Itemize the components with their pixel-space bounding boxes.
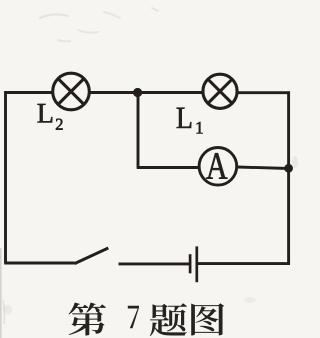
caption 第7题图 [68, 302, 224, 336]
caption char 7 [128, 306, 139, 328]
wire bottom-left (corner to switch) [4, 262, 75, 265]
node (right junction) [284, 164, 293, 173]
wire top-left horizontal [4, 91, 52, 94]
wire right vertical [287, 91, 290, 264]
wire left vertical [4, 91, 7, 263]
node (top junction) [133, 88, 142, 97]
battery positive plate (long) [195, 246, 198, 282]
caption char 第 [68, 302, 106, 335]
label L2 [38, 104, 63, 130]
wire top-right (lamp L1 to right corner) [237, 91, 290, 94]
ammeter A [199, 148, 237, 186]
wire junction drop (node to ammeter branch) [137, 93, 140, 168]
wire bottom-right (battery to corner) [197, 262, 290, 265]
wire ammeter branch left [137, 166, 199, 169]
wire bottom middle (switch to battery) [119, 262, 190, 265]
battery negative plate (short) [189, 254, 192, 273]
caption char 图 [191, 303, 224, 335]
wire ammeter branch right [238, 167, 289, 169]
wire top middle (lamp L2 to lamp L1) [90, 91, 203, 94]
switch [75, 248, 109, 264]
lamp L2 [53, 73, 90, 110]
caption char 题 [150, 303, 187, 336]
label L1 [177, 108, 203, 134]
lamp L1 [203, 74, 237, 108]
